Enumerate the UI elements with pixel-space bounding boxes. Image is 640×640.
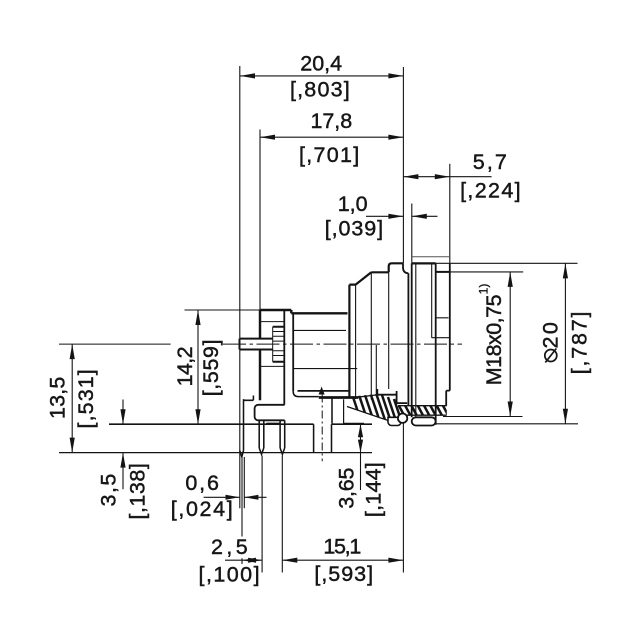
wire: extension line x=449.8 (5,7) bbox=[449, 164, 451, 264]
groove rear wall bbox=[407, 273, 409, 405]
dimension 14,2: dimension line bbox=[195, 310, 200, 424]
body front face bbox=[292, 313, 294, 391]
body bottom line bbox=[298, 390, 350, 392]
dimension 1,0 (outside arrows) bbox=[366, 214, 438, 219]
seal top thick edge bbox=[319, 396, 359, 399]
o-ring circle bbox=[398, 414, 407, 423]
contact spring knurl sides bbox=[273, 327, 285, 362]
svg-text:[,100]: [,100] bbox=[199, 562, 260, 586]
svg-text:3,65: 3,65 bbox=[335, 467, 359, 508]
svg-text:[,787]: [,787] bbox=[568, 312, 592, 374]
svg-text:20,4: 20,4 bbox=[300, 51, 342, 75]
hex facet lines rear bbox=[371, 272, 376, 400]
lockring step bbox=[389, 263, 403, 272]
hex section front face bbox=[349, 285, 355, 398]
dimension 20,4 bbox=[240, 73, 403, 78]
svg-text:[,593]: [,593] bbox=[314, 562, 372, 586]
pocket left wall bbox=[331, 397, 333, 424]
flange inner lines bbox=[260, 322, 284, 367]
dimension 0,6 (outside arrows) bbox=[204, 457, 267, 508]
svg-text:14,2: 14,2 bbox=[173, 347, 197, 387]
wire: extension line x=240 (20,4 / pin) bbox=[239, 66, 241, 508]
nut top edge bbox=[412, 262, 436, 264]
seal pocket wall bbox=[344, 399, 364, 423]
flange top edge bbox=[260, 310, 348, 313]
body bottom step notch bbox=[377, 389, 396, 395]
flange back face bbox=[283, 310, 285, 405]
svg-text:3,5: 3,5 bbox=[96, 474, 120, 507]
body interior lines bbox=[293, 330, 357, 368]
svg-text:[,138]: [,138] bbox=[126, 463, 150, 519]
rear face bbox=[449, 264, 451, 391]
svg-text:13,5: 13,5 bbox=[46, 377, 70, 419]
dia symbol bbox=[545, 349, 557, 363]
faint shoulder line bbox=[413, 256, 450, 258]
hex chamfer bbox=[356, 272, 372, 284]
nut facet lines bbox=[416, 264, 432, 417]
insulator block bbox=[255, 405, 285, 421]
svg-text:1): 1) bbox=[477, 284, 491, 295]
washer pill bottom bbox=[412, 417, 436, 425]
svg-text:15,1: 15,1 bbox=[323, 535, 361, 559]
svg-text:M18x0,75: M18x0,75 bbox=[482, 294, 506, 385]
dimension 13,5 bbox=[70, 344, 75, 453]
seal wedge outline bbox=[347, 395, 397, 424]
rear bottom corner bbox=[446, 391, 450, 406]
centerline horizontal axis bbox=[223, 343, 462, 345]
svg-text:[,024]: [,024] bbox=[171, 497, 233, 521]
flange front face bbox=[259, 310, 261, 400]
flange bottom step bbox=[244, 396, 254, 401]
dimension 3,5 (outside arrows) bbox=[120, 400, 125, 490]
axis marker triangle bbox=[319, 387, 325, 395]
dimension 3,65 bbox=[358, 424, 363, 490]
svg-text:[,803]: [,803] bbox=[290, 77, 349, 101]
svg-text:[,224]: [,224] bbox=[460, 179, 520, 203]
lockring rear face bbox=[388, 272, 390, 390]
dimension 5,7 bbox=[403, 174, 491, 179]
hex top edge bbox=[371, 271, 388, 273]
hex facet line bbox=[355, 285, 357, 399]
pin base line bbox=[266, 422, 280, 424]
svg-text:17,8: 17,8 bbox=[311, 109, 353, 133]
pin 1 bbox=[240, 399, 244, 457]
nut rear edge bbox=[435, 263, 437, 424]
contact spring knurl bars bbox=[273, 332, 284, 356]
center post bbox=[314, 424, 332, 452]
dimension M18x0,75: dimension line with arrows bbox=[508, 272, 513, 417]
rear interior lines bbox=[432, 318, 450, 338]
svg-text:5,7: 5,7 bbox=[473, 150, 507, 174]
centerline extension left (13,5 top reference) bbox=[59, 343, 171, 345]
svg-text:[,559]: [,559] bbox=[199, 340, 223, 397]
dimension 14,2: extension line top bbox=[185, 309, 261, 311]
groove bottom notch bbox=[397, 391, 408, 403]
groove front wall bbox=[403, 263, 408, 273]
svg-text:0,6: 0,6 bbox=[185, 471, 219, 495]
svg-text:2,5: 2,5 bbox=[211, 535, 248, 559]
barrel top edge bbox=[436, 271, 450, 273]
body bottom rounded corner bbox=[293, 391, 319, 396]
dimension dia20: extension lines bbox=[436, 263, 578, 423]
vertical centerline through post bbox=[321, 395, 323, 462]
svg-text:[,701]: [,701] bbox=[299, 143, 359, 167]
pin 2 bbox=[259, 420, 264, 454]
wire: extension line x=403.5 top bbox=[402, 67, 404, 263]
pcb line bbox=[59, 452, 372, 454]
nut front face bbox=[411, 263, 413, 417]
svg-text:[,531]: [,531] bbox=[74, 370, 98, 429]
contact spring knurl top bbox=[273, 327, 285, 362]
dimension 15,1 bbox=[282, 423, 403, 573]
seal foot bbox=[388, 417, 401, 425]
threaded band outline bbox=[398, 406, 447, 416]
dimension dia20: dimension line with arrows bbox=[563, 263, 568, 423]
front contact pin bbox=[240, 339, 273, 350]
dimension 2,5 bbox=[225, 456, 262, 573]
bottom plate line bbox=[109, 423, 372, 425]
svg-text:1,0: 1,0 bbox=[338, 192, 368, 216]
dimension M18x0,75: extension lines bbox=[443, 272, 523, 417]
svg-text:[,039]: [,039] bbox=[325, 217, 383, 241]
pin 3 bbox=[280, 420, 285, 454]
wire: extension line x=260 top (17,8) bbox=[259, 130, 261, 311]
wire: extension line x=411.8 (1,0) bbox=[411, 204, 413, 264]
svg-text:[,144]: [,144] bbox=[362, 463, 386, 518]
dimension 17,8 bbox=[260, 135, 403, 140]
